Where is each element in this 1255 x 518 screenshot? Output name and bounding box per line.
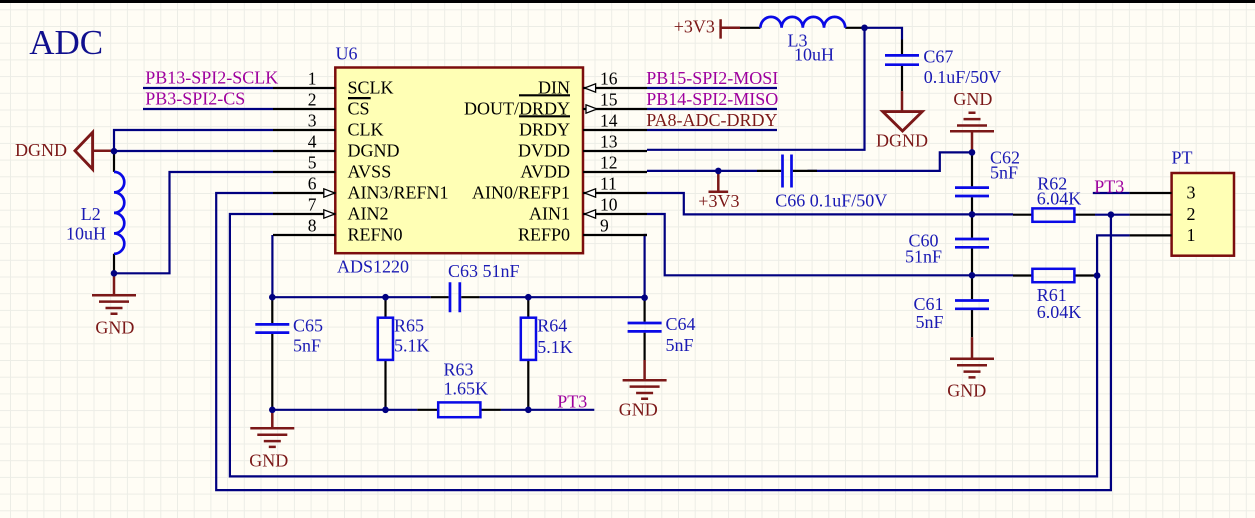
svg-text:AIN1: AIN1 bbox=[529, 203, 570, 223]
svg-text:6.04K: 6.04K bbox=[1037, 302, 1082, 322]
svg-text:6.04K: 6.04K bbox=[1037, 188, 1082, 208]
svg-text:2: 2 bbox=[1187, 204, 1196, 224]
svg-text:ADC: ADC bbox=[29, 23, 103, 62]
svg-text:51nF: 51nF bbox=[905, 247, 942, 267]
svg-text:5.1K: 5.1K bbox=[394, 335, 430, 355]
svg-text:5: 5 bbox=[308, 153, 317, 173]
svg-text:10: 10 bbox=[600, 195, 618, 215]
svg-text:AIN2: AIN2 bbox=[348, 203, 389, 223]
svg-text:REFN0: REFN0 bbox=[348, 224, 403, 244]
svg-text:GND: GND bbox=[619, 399, 658, 419]
svg-text:CLK: CLK bbox=[348, 119, 384, 139]
svg-text:C66 0.1uF/50V: C66 0.1uF/50V bbox=[775, 191, 887, 211]
svg-text:DRDY: DRDY bbox=[519, 119, 570, 139]
svg-text:7: 7 bbox=[308, 195, 317, 215]
svg-text:R63: R63 bbox=[444, 360, 474, 380]
svg-text:1.65K: 1.65K bbox=[444, 379, 489, 399]
svg-text:2: 2 bbox=[308, 90, 317, 110]
svg-text:L2: L2 bbox=[81, 204, 101, 224]
svg-text:PT: PT bbox=[1172, 148, 1193, 168]
svg-text:GND: GND bbox=[947, 380, 986, 400]
svg-text:16: 16 bbox=[600, 69, 618, 89]
svg-text:REFP0: REFP0 bbox=[518, 224, 570, 244]
svg-text:U6: U6 bbox=[336, 44, 358, 64]
svg-text:R65: R65 bbox=[394, 315, 424, 335]
svg-text:PB13-SPI2-SCLK: PB13-SPI2-SCLK bbox=[145, 68, 278, 88]
svg-text:C63 51nF: C63 51nF bbox=[448, 261, 520, 281]
svg-text:PT3: PT3 bbox=[557, 392, 587, 412]
svg-text:AIN3/REFN1: AIN3/REFN1 bbox=[348, 182, 449, 202]
svg-text:SCLK: SCLK bbox=[348, 77, 394, 97]
svg-text:C61: C61 bbox=[914, 294, 944, 314]
svg-text:5nF: 5nF bbox=[990, 163, 1018, 183]
svg-text:14: 14 bbox=[600, 111, 618, 131]
svg-text:PT3: PT3 bbox=[1094, 176, 1124, 196]
svg-text:9: 9 bbox=[600, 216, 609, 236]
svg-text:5.1K: 5.1K bbox=[537, 337, 573, 357]
svg-text:PA8-ADC-DRDY: PA8-ADC-DRDY bbox=[646, 110, 777, 130]
svg-text:DOUT/DRDY: DOUT/DRDY bbox=[464, 98, 570, 118]
svg-text:12: 12 bbox=[600, 153, 618, 173]
svg-text:13: 13 bbox=[600, 132, 618, 152]
svg-text:GND: GND bbox=[953, 89, 992, 109]
svg-text:AVSS: AVSS bbox=[348, 161, 392, 181]
svg-text:5nF: 5nF bbox=[916, 312, 944, 332]
svg-text:4: 4 bbox=[308, 132, 317, 152]
svg-text:8: 8 bbox=[308, 216, 317, 236]
svg-text:PB14-SPI2-MISO: PB14-SPI2-MISO bbox=[646, 89, 778, 109]
svg-text:0.1uF/50V: 0.1uF/50V bbox=[924, 67, 1002, 87]
svg-text:1: 1 bbox=[1187, 225, 1196, 245]
svg-text:3: 3 bbox=[308, 111, 317, 131]
svg-text:5nF: 5nF bbox=[293, 335, 321, 355]
svg-text:DGND: DGND bbox=[15, 140, 67, 160]
svg-text:C65: C65 bbox=[293, 315, 323, 335]
svg-text:+3V3: +3V3 bbox=[674, 16, 715, 36]
svg-text:C64: C64 bbox=[666, 314, 696, 334]
svg-text:DGND: DGND bbox=[876, 130, 928, 150]
svg-text:15: 15 bbox=[600, 90, 618, 110]
svg-text:5nF: 5nF bbox=[666, 335, 694, 355]
svg-text:GND: GND bbox=[95, 317, 134, 337]
svg-text:CS: CS bbox=[348, 98, 370, 118]
svg-text:3: 3 bbox=[1187, 183, 1196, 203]
svg-text:R64: R64 bbox=[537, 315, 567, 335]
svg-text:DVDD: DVDD bbox=[518, 140, 570, 160]
svg-text:+3V3: +3V3 bbox=[698, 191, 739, 211]
svg-text:AVDD: AVDD bbox=[520, 161, 570, 181]
svg-text:DGND: DGND bbox=[348, 140, 400, 160]
svg-text:GND: GND bbox=[249, 450, 288, 470]
svg-text:DIN: DIN bbox=[538, 77, 570, 97]
svg-text:10uH: 10uH bbox=[794, 44, 834, 64]
svg-text:6: 6 bbox=[308, 174, 317, 194]
svg-text:ADS1220: ADS1220 bbox=[337, 257, 409, 277]
svg-text:C67: C67 bbox=[923, 47, 953, 67]
svg-text:PB3-SPI2-CS: PB3-SPI2-CS bbox=[145, 89, 245, 109]
svg-text:AIN0/REFP1: AIN0/REFP1 bbox=[472, 182, 570, 202]
svg-text:PB15-SPI2-MOSI: PB15-SPI2-MOSI bbox=[646, 68, 778, 88]
svg-text:11: 11 bbox=[600, 174, 617, 194]
svg-text:1: 1 bbox=[308, 69, 317, 89]
svg-text:10uH: 10uH bbox=[66, 223, 106, 243]
